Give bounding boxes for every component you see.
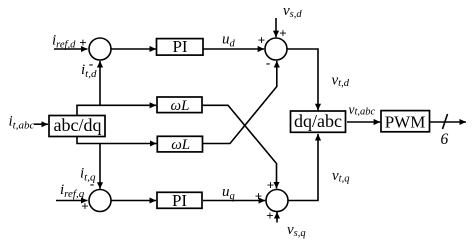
svg-text:+: +	[81, 199, 88, 214]
svg-text:-: -	[266, 55, 270, 70]
svg-text:abc/dq: abc/dq	[54, 115, 102, 135]
svg-text:ωL: ωL	[171, 98, 190, 114]
svg-text:-: -	[90, 176, 94, 191]
svg-text:PI: PI	[172, 191, 187, 210]
svg-text:+: +	[279, 26, 286, 41]
svg-text:-: -	[89, 56, 93, 71]
svg-text:dq/abc: dq/abc	[294, 111, 342, 131]
svg-text:PI: PI	[172, 37, 187, 56]
svg-text:+: +	[258, 33, 265, 48]
svg-text:+: +	[266, 208, 273, 223]
svg-text:PWM: PWM	[385, 113, 426, 132]
svg-text:6: 6	[441, 131, 449, 148]
svg-text:+: +	[79, 35, 86, 50]
svg-text:+: +	[267, 177, 274, 192]
svg-text:ωL: ωL	[171, 137, 190, 153]
svg-text:+: +	[255, 189, 262, 204]
